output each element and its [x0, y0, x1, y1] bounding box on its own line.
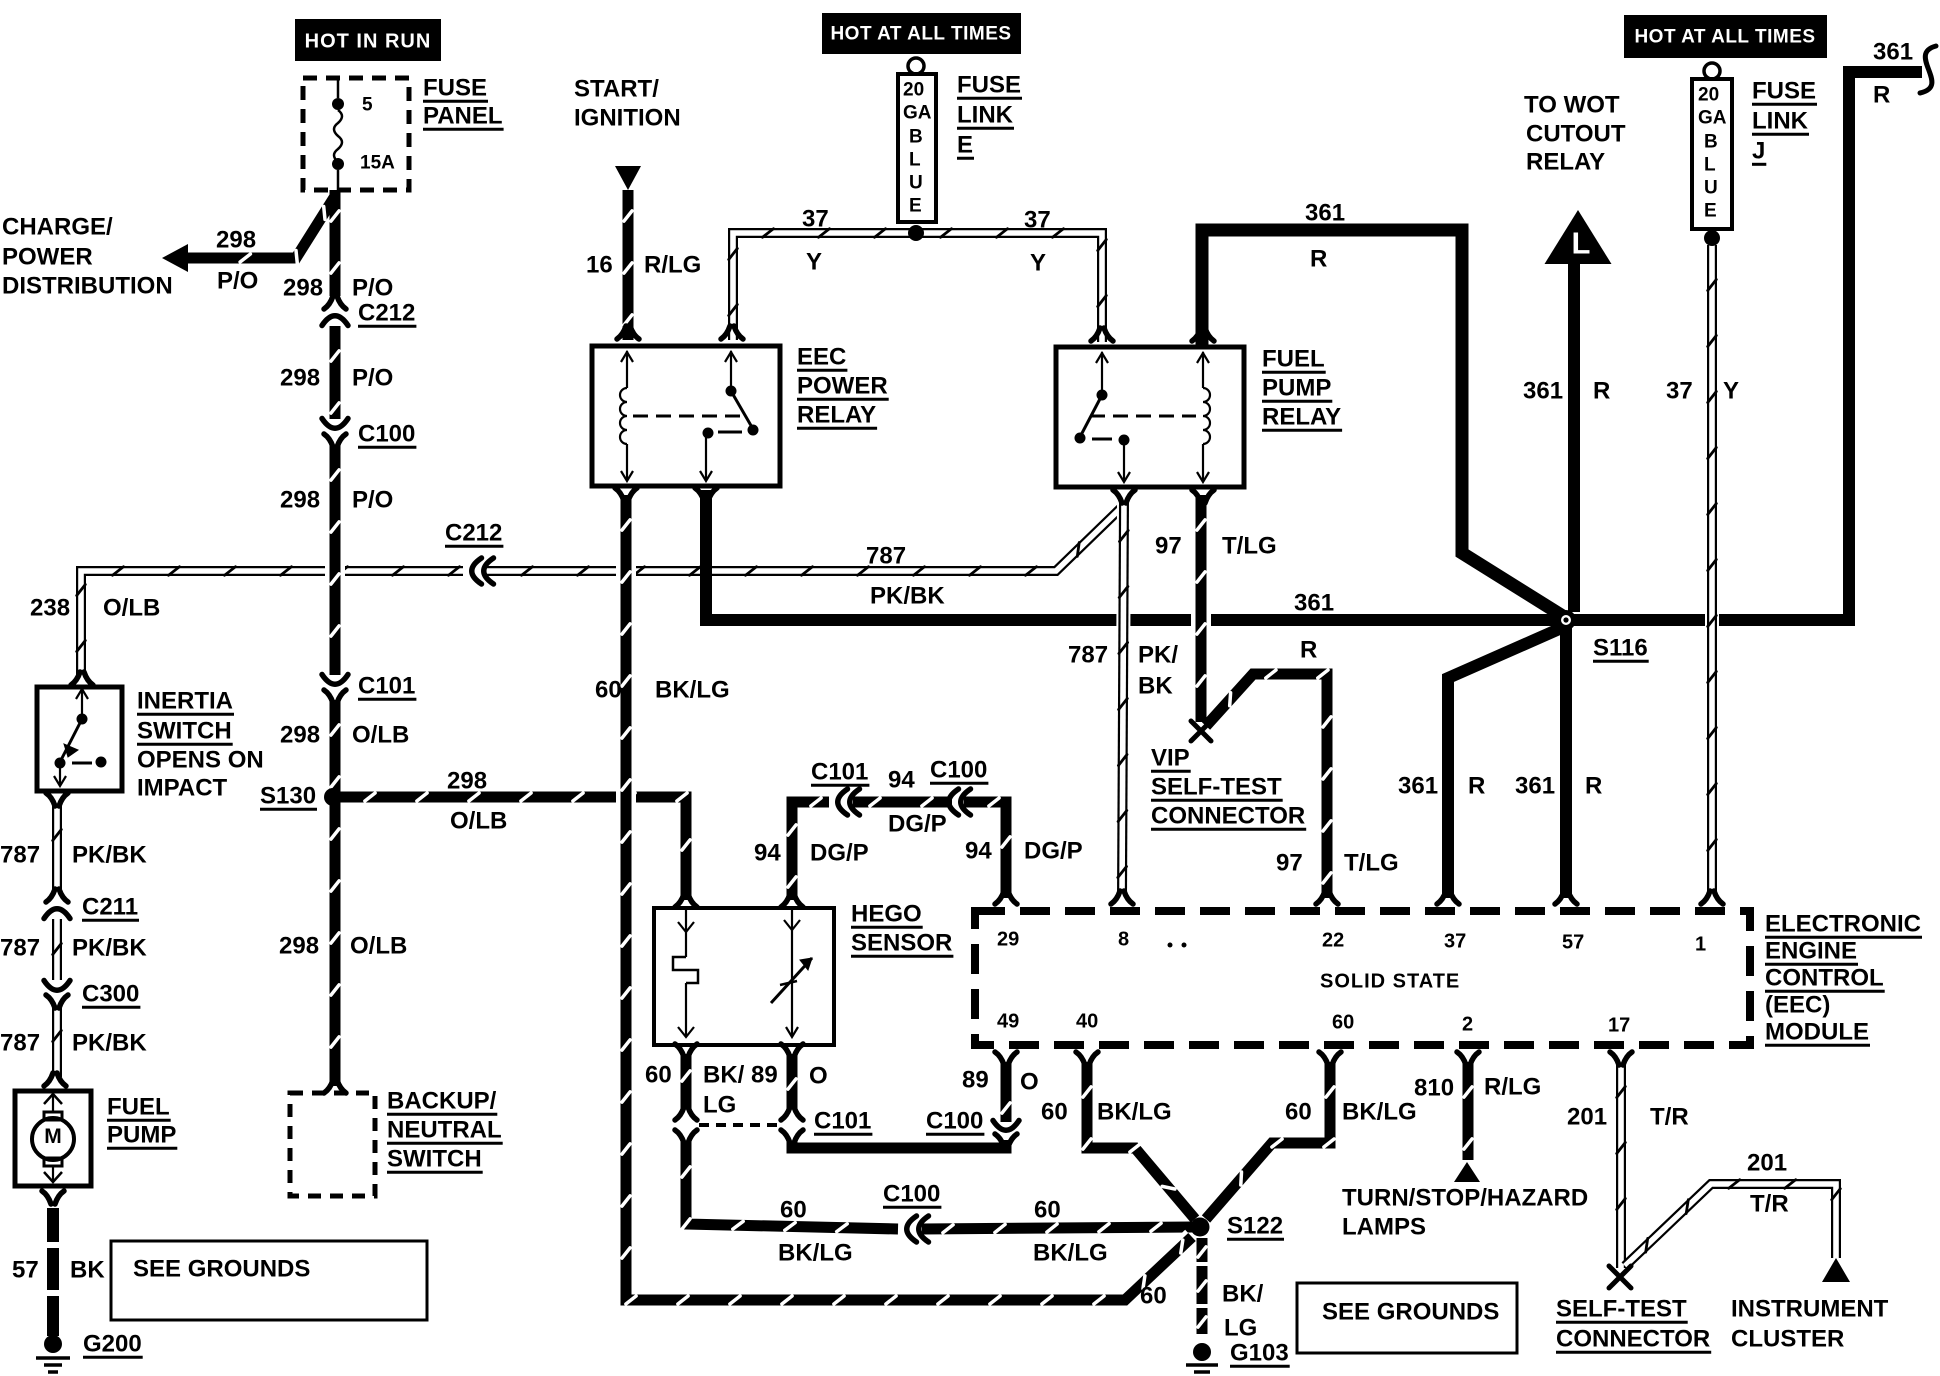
svg-text:EEC: EEC: [797, 343, 846, 370]
svg-text:94: 94: [888, 766, 915, 793]
svg-text:ELECTRONIC: ELECTRONIC: [1765, 910, 1921, 937]
svg-text:17: 17: [1608, 1014, 1630, 1036]
svg-text:201: 201: [1567, 1103, 1607, 1130]
svg-text:DISTRIBUTION: DISTRIBUTION: [2, 272, 173, 299]
svg-text:Y: Y: [806, 248, 822, 275]
svg-text:P/O: P/O: [352, 486, 393, 513]
svg-text:C300: C300: [82, 980, 139, 1007]
svg-text:RELAY: RELAY: [1262, 403, 1341, 430]
svg-text:361: 361: [1305, 199, 1345, 226]
svg-text:SEE GROUNDS: SEE GROUNDS: [1322, 1298, 1499, 1325]
svg-text:37: 37: [1666, 377, 1693, 404]
svg-text:PK/BK: PK/BK: [72, 934, 147, 961]
svg-text:PK/BK: PK/BK: [870, 582, 945, 609]
svg-text:97: 97: [1276, 849, 1303, 876]
svg-text:START/: START/: [574, 75, 659, 102]
svg-text:787: 787: [866, 542, 906, 569]
svg-text:B: B: [909, 127, 923, 148]
svg-text:810: 810: [1414, 1074, 1454, 1101]
svg-text:787: 787: [0, 934, 40, 961]
svg-text:O: O: [1020, 1068, 1039, 1095]
svg-text:ENGINE: ENGINE: [1765, 937, 1857, 964]
svg-text:CONTROL: CONTROL: [1765, 964, 1884, 991]
svg-text:LINK: LINK: [957, 101, 1014, 128]
svg-text:C100: C100: [883, 1180, 940, 1207]
svg-text:TURN/STOP/HAZARD: TURN/STOP/HAZARD: [1342, 1184, 1588, 1211]
svg-text:787: 787: [0, 841, 40, 868]
svg-text:60: 60: [1140, 1282, 1167, 1309]
svg-text:BK/LG: BK/LG: [1033, 1239, 1108, 1266]
svg-text:TO WOT: TO WOT: [1524, 91, 1620, 118]
svg-text:P/O: P/O: [217, 267, 258, 294]
svg-text:J: J: [1752, 137, 1765, 164]
svg-text:POWER: POWER: [2, 243, 93, 270]
svg-text:BK/LG: BK/LG: [778, 1239, 853, 1266]
svg-text:201: 201: [1747, 1149, 1787, 1176]
svg-text:G200: G200: [83, 1330, 142, 1357]
svg-text:C101: C101: [811, 758, 868, 785]
svg-text:49: 49: [997, 1010, 1019, 1032]
svg-text:Y: Y: [1030, 249, 1046, 276]
svg-text:361: 361: [1294, 589, 1334, 616]
svg-text:16: 16: [586, 251, 613, 278]
svg-text:P/O: P/O: [352, 364, 393, 391]
svg-text:L: L: [909, 150, 921, 171]
svg-text:C212: C212: [445, 519, 502, 546]
svg-text:SELF-TEST: SELF-TEST: [1556, 1295, 1687, 1322]
svg-text:C212: C212: [358, 299, 415, 326]
svg-text:HOT IN RUN: HOT IN RUN: [305, 30, 432, 52]
svg-text:S130: S130: [260, 782, 316, 809]
svg-text:C101: C101: [814, 1107, 871, 1134]
svg-text:238: 238: [30, 594, 70, 621]
svg-text:R: R: [1300, 636, 1317, 663]
svg-text:E: E: [1704, 201, 1717, 222]
svg-text:DG/P: DG/P: [810, 839, 869, 866]
svg-text:O/LB: O/LB: [350, 932, 407, 959]
svg-text:O/LB: O/LB: [352, 721, 409, 748]
svg-text:94: 94: [965, 837, 992, 864]
svg-text:O: O: [809, 1062, 828, 1089]
svg-text:R: R: [1585, 772, 1602, 799]
svg-text:22: 22: [1322, 929, 1344, 951]
svg-text:U: U: [909, 173, 923, 194]
svg-text:L: L: [1572, 225, 1591, 260]
svg-text:C101: C101: [358, 672, 415, 699]
svg-text:PK/: PK/: [1138, 641, 1178, 668]
svg-text:RELAY: RELAY: [797, 401, 876, 428]
svg-text:298: 298: [279, 932, 319, 959]
svg-text:SOLID STATE: SOLID STATE: [1320, 970, 1460, 992]
svg-text:L: L: [1704, 155, 1716, 176]
svg-text:C100: C100: [930, 756, 987, 783]
svg-text:BK/: BK/: [703, 1061, 745, 1088]
svg-text:37: 37: [1024, 206, 1051, 233]
svg-text:DG/P: DG/P: [1024, 837, 1083, 864]
svg-text:FUEL: FUEL: [1262, 345, 1325, 372]
svg-text:FUEL: FUEL: [107, 1093, 170, 1120]
svg-text:SEE GROUNDS: SEE GROUNDS: [133, 1255, 310, 1282]
svg-text:G103: G103: [1230, 1339, 1289, 1366]
svg-text:FUSE: FUSE: [1752, 77, 1816, 104]
svg-text:2: 2: [1462, 1013, 1473, 1035]
svg-text:CONNECTOR: CONNECTOR: [1556, 1325, 1710, 1352]
svg-text:787: 787: [1068, 641, 1108, 668]
svg-text:S116: S116: [1593, 634, 1648, 661]
svg-text:94: 94: [754, 839, 781, 866]
svg-text:LG: LG: [703, 1091, 736, 1118]
svg-text:U: U: [1704, 178, 1718, 199]
svg-text:R: R: [1310, 245, 1327, 272]
svg-text:DG/P: DG/P: [888, 810, 947, 837]
svg-text:O/LB: O/LB: [103, 594, 160, 621]
svg-text:57: 57: [1562, 931, 1584, 953]
svg-text:GA: GA: [903, 103, 932, 124]
svg-text:SWITCH: SWITCH: [137, 717, 232, 744]
svg-text:R: R: [1873, 81, 1890, 108]
svg-text:IGNITION: IGNITION: [574, 104, 681, 131]
svg-text:VIP: VIP: [1151, 744, 1190, 771]
svg-text:60: 60: [595, 676, 622, 703]
svg-text:37: 37: [802, 205, 829, 232]
svg-text:R/LG: R/LG: [644, 251, 701, 278]
svg-text:HEGO: HEGO: [851, 900, 922, 927]
svg-text:PUMP: PUMP: [1262, 374, 1331, 401]
svg-text:37: 37: [1444, 930, 1466, 952]
svg-text:60: 60: [645, 1061, 672, 1088]
svg-text:BK/: BK/: [1222, 1280, 1264, 1307]
svg-text:BK: BK: [70, 1256, 105, 1283]
svg-text:787: 787: [0, 1029, 40, 1056]
svg-text:BK/LG: BK/LG: [1342, 1098, 1417, 1125]
svg-text:60: 60: [1041, 1098, 1068, 1125]
svg-text:60: 60: [1034, 1196, 1061, 1223]
svg-text:POWER: POWER: [797, 372, 888, 399]
svg-text:B: B: [1704, 132, 1718, 153]
svg-text:PUMP: PUMP: [107, 1121, 176, 1148]
svg-text:E: E: [957, 131, 973, 158]
svg-text:BK/LG: BK/LG: [1097, 1098, 1172, 1125]
svg-text:S122: S122: [1227, 1212, 1283, 1239]
svg-text:HOT AT ALL TIMES: HOT AT ALL TIMES: [830, 24, 1011, 45]
svg-text:T/LG: T/LG: [1222, 532, 1277, 559]
svg-text:NEUTRAL: NEUTRAL: [387, 1116, 502, 1143]
svg-text:BACKUP/: BACKUP/: [387, 1087, 497, 1114]
svg-text:R/LG: R/LG: [1484, 1073, 1541, 1100]
svg-text:M: M: [44, 1125, 62, 1148]
svg-text:361: 361: [1398, 772, 1438, 799]
svg-text:OPENS ON: OPENS ON: [137, 746, 264, 773]
svg-text:89: 89: [962, 1066, 989, 1093]
svg-text:PK/BK: PK/BK: [72, 841, 147, 868]
svg-text:T/R: T/R: [1750, 1190, 1789, 1217]
svg-text:PK/BK: PK/BK: [72, 1029, 147, 1056]
svg-text:SENSOR: SENSOR: [851, 929, 952, 956]
svg-text:CONNECTOR: CONNECTOR: [1151, 802, 1305, 829]
svg-text:BK: BK: [1138, 672, 1173, 699]
svg-text:CLUSTER: CLUSTER: [1731, 1325, 1844, 1352]
svg-text:C100: C100: [358, 420, 415, 447]
svg-text:CHARGE/: CHARGE/: [2, 213, 113, 240]
svg-text:E: E: [909, 196, 922, 217]
svg-text:29: 29: [997, 928, 1019, 950]
svg-text:20: 20: [1698, 85, 1719, 106]
svg-text:60: 60: [1332, 1011, 1354, 1033]
svg-text:Y: Y: [1723, 377, 1739, 404]
svg-text:298: 298: [280, 721, 320, 748]
svg-text:SELF-TEST: SELF-TEST: [1151, 773, 1282, 800]
svg-text:P/O: P/O: [352, 274, 393, 301]
svg-text:GA: GA: [1698, 108, 1727, 129]
svg-text:T/R: T/R: [1650, 1103, 1689, 1130]
svg-text:HOT AT ALL TIMES: HOT AT ALL TIMES: [1634, 27, 1815, 48]
svg-text:298: 298: [216, 226, 256, 253]
svg-text:O/LB: O/LB: [450, 807, 507, 834]
svg-text:IMPACT: IMPACT: [137, 774, 228, 801]
svg-text:361: 361: [1523, 377, 1563, 404]
svg-text:BK/LG: BK/LG: [655, 676, 730, 703]
svg-text:FUSE: FUSE: [423, 74, 487, 101]
svg-text:361: 361: [1873, 38, 1913, 65]
svg-text:PANEL: PANEL: [423, 102, 503, 129]
svg-text:R: R: [1468, 772, 1485, 799]
svg-text:298: 298: [283, 274, 323, 301]
svg-text:FUSE: FUSE: [957, 71, 1021, 98]
svg-text:89: 89: [751, 1061, 778, 1088]
svg-text:15A: 15A: [360, 153, 395, 174]
svg-text:LAMPS: LAMPS: [1342, 1213, 1426, 1240]
svg-text:5: 5: [362, 95, 373, 116]
svg-text:40: 40: [1076, 1010, 1098, 1032]
svg-text:INERTIA: INERTIA: [137, 687, 233, 714]
svg-text:361: 361: [1515, 772, 1555, 799]
svg-text:298: 298: [280, 486, 320, 513]
svg-text:RELAY: RELAY: [1526, 148, 1605, 175]
svg-text:60: 60: [1285, 1098, 1312, 1125]
svg-text:8: 8: [1118, 928, 1129, 950]
svg-text:LG: LG: [1224, 1314, 1257, 1341]
svg-text:C100: C100: [926, 1107, 983, 1134]
svg-text:60: 60: [780, 1196, 807, 1223]
svg-text:1: 1: [1695, 933, 1706, 955]
svg-text:LINK: LINK: [1752, 107, 1809, 134]
svg-text:R: R: [1593, 377, 1610, 404]
svg-text:20: 20: [903, 80, 924, 101]
svg-text:INSTRUMENT: INSTRUMENT: [1731, 1295, 1889, 1322]
svg-text:SWITCH: SWITCH: [387, 1145, 482, 1172]
svg-text:C211: C211: [82, 893, 138, 920]
svg-text:298: 298: [447, 767, 487, 794]
svg-text:97: 97: [1155, 532, 1182, 559]
svg-text:CUTOUT: CUTOUT: [1526, 120, 1626, 147]
svg-text:298: 298: [280, 364, 320, 391]
svg-text:(EEC): (EEC): [1765, 991, 1830, 1018]
svg-text:57: 57: [12, 1256, 39, 1283]
svg-text:MODULE: MODULE: [1765, 1018, 1869, 1045]
svg-text:T/LG: T/LG: [1344, 849, 1399, 876]
